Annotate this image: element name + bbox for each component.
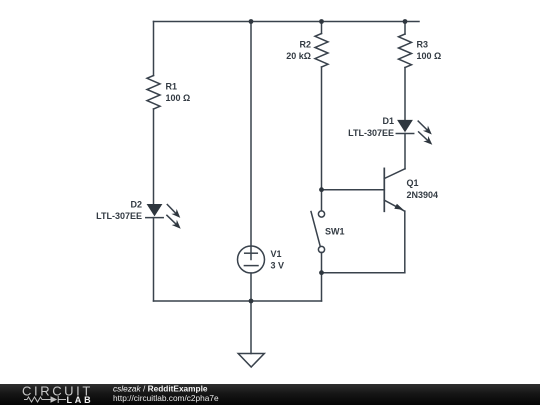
node top R2 [319,19,324,24]
wire emitter vertical [404,211,406,273]
LED D1 [396,120,432,145]
svg-text:100 Ω: 100 Ω [166,93,191,103]
wire left branch lower [153,218,155,301]
node base junction [319,187,324,192]
wire R2 branch upper [321,22,323,34]
svg-text:20 kΩ: 20 kΩ [286,51,311,61]
node emitter junction [319,270,324,275]
resistor R1 [147,76,160,110]
svg-text:LTL-307EE: LTL-307EE [348,128,394,138]
node bottom ground [249,299,254,304]
ground [238,354,264,368]
svg-text:2N3904: 2N3904 [407,190,439,200]
wire R2 to base node [321,67,323,190]
wire top rail [154,21,420,23]
svg-text:R3: R3 [417,40,429,50]
wire emitter to switch branch [322,272,405,274]
svg-text:LAB: LAB [67,395,94,405]
LED D2 [146,204,181,229]
wire switch to lower node [321,252,323,301]
resistor R3 [399,34,412,68]
node top R3 [403,19,408,24]
wire base [322,189,385,191]
svg-text:R1: R1 [166,82,178,92]
svg-text:D1: D1 [382,116,394,126]
wire bottom rail [154,300,322,302]
wire R3 to D1 [404,68,406,120]
svg-text:3 V: 3 V [271,261,285,271]
wire V1 branch lower [250,273,252,301]
svg-text:SW1: SW1 [325,227,345,237]
wire left branch upper [153,22,155,76]
svg-text:D2: D2 [130,200,142,210]
wire ground stem [250,301,252,354]
node top V1 [249,19,254,24]
wire D1 to collector [404,134,406,169]
switch SW1 [311,211,325,253]
voltage source V1 [238,246,265,273]
wire left branch middle [153,109,155,204]
svg-text:100 Ω: 100 Ω [417,51,442,61]
resistor R2 [315,34,328,68]
svg-text:Q1: Q1 [407,178,419,188]
svg-text:R2: R2 [299,40,311,50]
svg-text:V1: V1 [271,249,282,259]
wire base node to switch [321,190,323,211]
svg-text:LTL-307EE: LTL-307EE [96,211,142,221]
wire R3 branch upper [404,22,406,35]
svg-text:http://circuitlab.com/c2pha7e: http://circuitlab.com/c2pha7e [113,393,219,403]
wire V1 branch upper [250,22,252,247]
CircuitLab logo [22,384,93,405]
footer bar [0,384,540,405]
transistor Q1 [384,168,405,211]
